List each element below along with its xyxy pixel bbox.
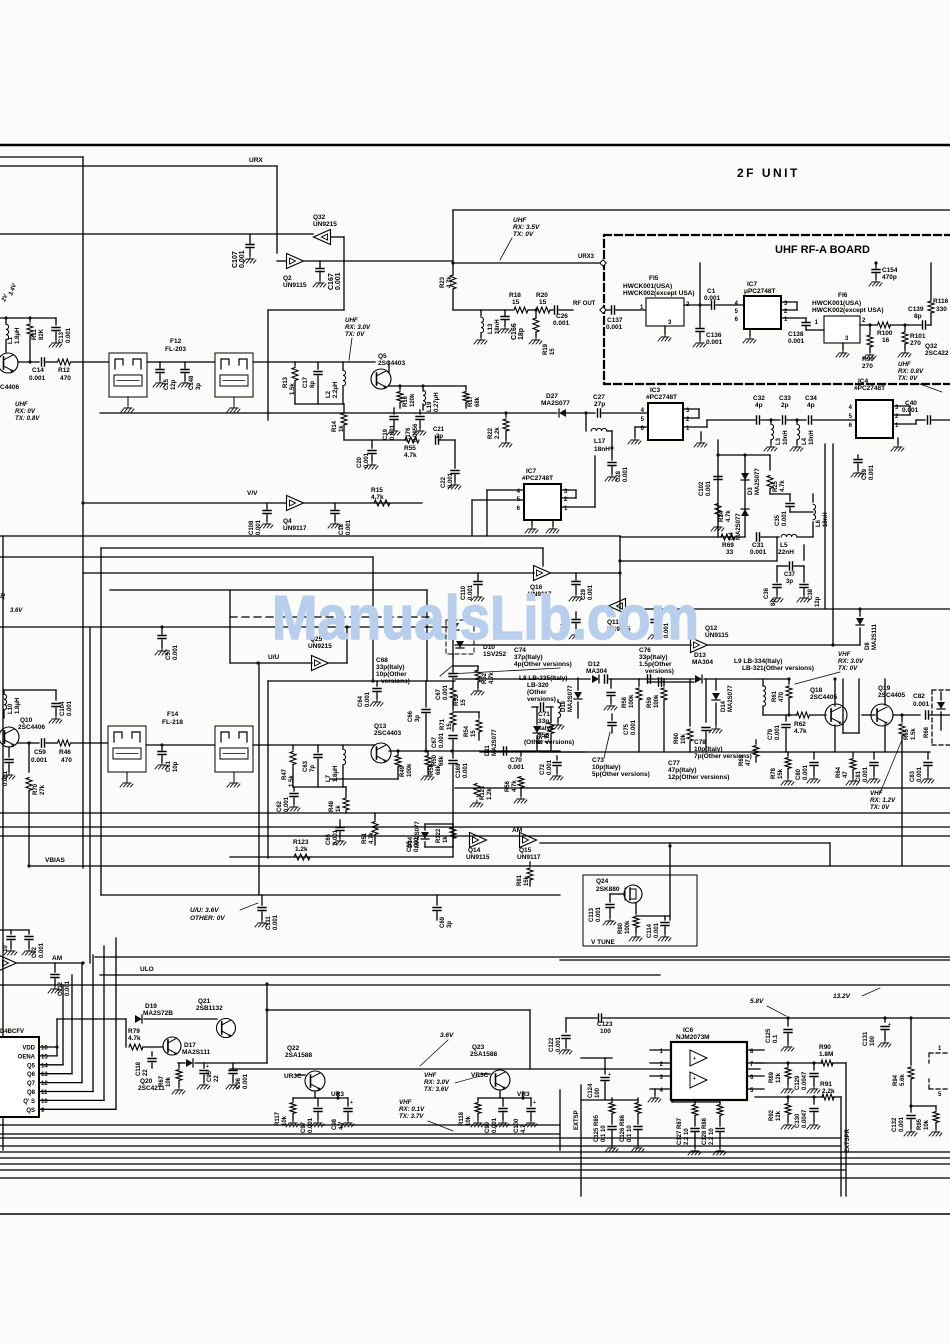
capacitor C36 bbox=[776, 566, 778, 582]
svg-text:C104: C104 bbox=[60, 701, 66, 716]
svg-text:Q22: Q22 bbox=[287, 1045, 300, 1052]
svg-text:10nH: 10nH bbox=[783, 430, 789, 445]
resistor R49 bbox=[397, 751, 399, 755]
svg-text:1.2k: 1.2k bbox=[295, 846, 308, 853]
svg-text:Q2: Q2 bbox=[283, 275, 292, 282]
svg-text:R71: R71 bbox=[440, 718, 446, 730]
svg-text:68k: 68k bbox=[439, 755, 445, 766]
svg-text:C58: C58 bbox=[0, 774, 2, 786]
svg-text:47: 47 bbox=[843, 771, 849, 778]
capacitor C58 bbox=[8, 747, 10, 757]
svg-text:L7: L7 bbox=[326, 774, 332, 782]
board outline UHF RF-A bbox=[604, 235, 950, 384]
filter F12b bbox=[215, 353, 253, 397]
svg-text:C32: C32 bbox=[753, 395, 765, 402]
svg-text:C33: C33 bbox=[779, 395, 791, 402]
svg-text:IC7: IC7 bbox=[526, 468, 537, 475]
svg-text:18nH: 18nH bbox=[594, 446, 610, 453]
svg-text:C21: C21 bbox=[433, 427, 445, 433]
svg-text:68k: 68k bbox=[475, 396, 481, 407]
svg-text:15: 15 bbox=[550, 348, 556, 355]
svg-text:+: + bbox=[693, 1076, 696, 1082]
svg-text:15: 15 bbox=[539, 299, 547, 306]
diode D17 bbox=[178, 1062, 185, 1064]
resistor R46 bbox=[58, 740, 71, 746]
diode D14 bbox=[715, 679, 717, 690]
svg-text:FI6: FI6 bbox=[838, 292, 848, 299]
capacitor C169 bbox=[452, 740, 454, 758]
connector jack bbox=[929, 1053, 950, 1089]
svg-text:+: + bbox=[608, 1072, 611, 1078]
svg-text:IC3: IC3 bbox=[650, 387, 661, 394]
svg-text:C169: C169 bbox=[456, 763, 462, 778]
svg-text:10k: 10k bbox=[924, 1119, 930, 1130]
svg-text:#PC2748T: #PC2748T bbox=[854, 385, 885, 392]
svg-text:R48: R48 bbox=[329, 800, 335, 812]
capacitor C71 bbox=[532, 706, 538, 708]
wire bbox=[0, 317, 56, 319]
wire bbox=[0, 835, 950, 837]
svg-text:OENA: OENA bbox=[18, 1054, 36, 1060]
svg-text:C65: C65 bbox=[326, 833, 332, 845]
svg-text:R70: R70 bbox=[33, 783, 39, 795]
wire bbox=[0, 556, 373, 558]
wire bbox=[0, 1124, 560, 1126]
resistor R55 bbox=[405, 437, 419, 443]
svg-text:+: + bbox=[888, 1022, 891, 1028]
svg-text:2p: 2p bbox=[781, 402, 789, 409]
capacitor C136 bbox=[696, 329, 704, 332]
inductor L2 bbox=[342, 362, 344, 370]
svg-text:C59: C59 bbox=[34, 749, 46, 756]
resistor R47 bbox=[292, 745, 294, 750]
wire bbox=[71, 361, 109, 363]
svg-text:Q32: Q32 bbox=[313, 214, 326, 221]
svg-text:0.001: 0.001 bbox=[863, 766, 869, 782]
capacitor C131 bbox=[884, 1018, 886, 1022]
wire bbox=[0, 984, 950, 986]
svg-text:C82: C82 bbox=[913, 693, 925, 700]
diode D8 bbox=[858, 607, 861, 610]
svg-text:MA2S077: MA2S077 bbox=[736, 513, 742, 540]
wire bbox=[901, 742, 903, 866]
svg-text:+: + bbox=[693, 1056, 696, 1062]
svg-text:5.6k: 5.6k bbox=[900, 1074, 906, 1086]
svg-text:C137: C137 bbox=[607, 317, 623, 324]
svg-text:C98: C98 bbox=[332, 1118, 338, 1130]
svg-text:TX: 3.7V: TX: 3.7V bbox=[399, 1113, 424, 1120]
svg-text:12p: 12p bbox=[171, 379, 177, 390]
svg-text:C18: C18 bbox=[339, 523, 345, 535]
svg-text:R46: R46 bbox=[59, 749, 71, 756]
svg-text:D11: D11 bbox=[485, 745, 491, 756]
capacitor C102 bbox=[714, 477, 722, 480]
wire bbox=[304, 260, 320, 262]
svg-text:MA2S72B: MA2S72B bbox=[143, 1010, 173, 1017]
wire bus bbox=[0, 1157, 950, 1159]
varactor D15 bbox=[932, 690, 950, 745]
svg-text:UN9215: UN9215 bbox=[313, 221, 337, 228]
svg-text:C122: C122 bbox=[549, 1037, 555, 1052]
svg-text:D13: D13 bbox=[694, 652, 706, 659]
transistor Q32 bbox=[314, 230, 331, 245]
capacitor C97 bbox=[317, 1098, 319, 1106]
svg-text:R62: R62 bbox=[794, 721, 806, 728]
capacitor C96 bbox=[232, 1063, 234, 1068]
svg-text:1.8μH: 1.8μH bbox=[15, 698, 21, 714]
svg-text:C96: C96 bbox=[236, 1077, 242, 1089]
svg-text:versions): versions) bbox=[645, 668, 674, 675]
svg-text:C127 R87: C127 R87 bbox=[677, 1117, 683, 1145]
ground bbox=[552, 520, 554, 526]
svg-text:C1: C1 bbox=[707, 288, 716, 295]
svg-text:3.6V: 3.6V bbox=[10, 608, 23, 614]
svg-text:Q8: Q8 bbox=[27, 1090, 36, 1096]
capacitor C22 bbox=[454, 440, 456, 468]
svg-text:FI5: FI5 bbox=[649, 275, 659, 282]
svg-text:V TUNE: V TUNE bbox=[591, 939, 616, 946]
svg-text:R12: R12 bbox=[58, 367, 70, 374]
svg-text:RX: 0.1V: RX: 0.1V bbox=[399, 1106, 425, 1113]
svg-text:MA2S111: MA2S111 bbox=[182, 1049, 211, 1056]
capacitor C72 bbox=[556, 756, 558, 760]
svg-text:12k: 12k bbox=[776, 1072, 782, 1083]
svg-text:18p: 18p bbox=[518, 328, 525, 340]
svg-text:0.001: 0.001 bbox=[775, 724, 781, 740]
svg-text:UN9117: UN9117 bbox=[283, 525, 307, 532]
svg-text:2.2k: 2.2k bbox=[495, 427, 501, 439]
svg-text:0.001: 0.001 bbox=[439, 732, 445, 748]
svg-text:470: 470 bbox=[779, 691, 785, 702]
svg-text:Q10: Q10 bbox=[20, 717, 33, 724]
diode D11 bbox=[536, 707, 538, 724]
svg-text:4p(Other versions): 4p(Other versions) bbox=[514, 661, 572, 668]
svg-text:0.001: 0.001 bbox=[788, 338, 805, 345]
capacitor C154 bbox=[874, 261, 877, 264]
svg-text:12p: 12p bbox=[815, 596, 821, 607]
wire bbox=[480, 751, 585, 753]
svg-text:C148: C148 bbox=[189, 375, 195, 390]
svg-text:(Other versions): (Other versions) bbox=[524, 739, 574, 746]
wire bbox=[100, 548, 102, 895]
svg-text:0.001: 0.001 bbox=[67, 700, 73, 716]
wire bbox=[499, 1090, 501, 1098]
capacitor C39 bbox=[857, 455, 859, 458]
svg-text:F14: F14 bbox=[167, 711, 179, 718]
svg-text:2SC4403: 2SC4403 bbox=[374, 730, 401, 737]
inductor L17 bbox=[585, 413, 587, 431]
wire bbox=[253, 744, 375, 746]
capacitor C69 bbox=[436, 895, 438, 905]
svg-text:0.001: 0.001 bbox=[39, 942, 45, 958]
capacitor C124 bbox=[604, 1058, 606, 1074]
transistor Q5 bbox=[371, 369, 391, 389]
svg-text:V/V: V/V bbox=[247, 490, 258, 497]
svg-text:D4BCFV: D4BCFV bbox=[0, 1029, 24, 1035]
svg-text:33p(Italy): 33p(Italy) bbox=[376, 664, 405, 671]
wire bbox=[4, 689, 56, 691]
svg-text:3p: 3p bbox=[447, 921, 453, 928]
wire bbox=[540, 842, 830, 844]
resistor R61 bbox=[788, 679, 790, 684]
wire bbox=[580, 1085, 582, 1196]
svg-text:C125: C125 bbox=[766, 1028, 772, 1043]
svg-text:3p: 3p bbox=[196, 383, 202, 390]
capacitor C74b bbox=[610, 679, 612, 688]
svg-text:Q24: Q24 bbox=[596, 878, 609, 885]
wire bbox=[267, 681, 269, 858]
svg-text:100: 100 bbox=[600, 1028, 611, 1035]
capacitor C108 bbox=[266, 503, 268, 509]
capacitor C33b bbox=[654, 612, 656, 618]
svg-text:C97: C97 bbox=[301, 1121, 307, 1133]
svg-text:C81: C81 bbox=[856, 770, 862, 782]
capacitor C64 bbox=[376, 681, 378, 686]
svg-text:0.001: 0.001 bbox=[899, 1116, 905, 1132]
svg-text:0.001: 0.001 bbox=[706, 480, 712, 496]
svg-text:L13: L13 bbox=[488, 323, 494, 334]
svg-text:1.5k: 1.5k bbox=[290, 383, 296, 395]
svg-text:RX: 3.0V: RX: 3.0V bbox=[838, 658, 864, 665]
wire bbox=[618, 559, 621, 562]
svg-text:0.001: 0.001 bbox=[390, 424, 396, 440]
capacitor C78 bbox=[705, 679, 707, 722]
resistor R64 bbox=[852, 752, 854, 757]
svg-text:R17: R17 bbox=[468, 395, 474, 407]
svg-text:4.7k: 4.7k bbox=[512, 780, 518, 792]
wire bbox=[810, 714, 826, 716]
diode D3 bbox=[744, 455, 746, 537]
svg-text:QS: QS bbox=[26, 1108, 35, 1114]
wire bbox=[39, 1099, 104, 1101]
wire bbox=[39, 1108, 116, 1110]
capacitor C148 bbox=[184, 362, 186, 368]
wire bbox=[0, 826, 950, 828]
capacitor C138 bbox=[802, 323, 810, 326]
wire bbox=[101, 547, 543, 549]
svg-text:Q18: Q18 bbox=[810, 687, 823, 694]
svg-text:0.001: 0.001 bbox=[902, 407, 919, 414]
wire bbox=[0, 1133, 560, 1135]
resistor R95 bbox=[935, 1106, 937, 1110]
svg-text:RX: 0.8V: RX: 0.8V bbox=[898, 368, 924, 375]
svg-text:RX: 3.0V: RX: 3.0V bbox=[345, 324, 371, 331]
capacitor C34 bbox=[809, 416, 812, 424]
capacitor C32 bbox=[757, 416, 760, 424]
wire bbox=[453, 309, 513, 311]
svg-text:Q5: Q5 bbox=[378, 353, 387, 360]
wire bbox=[455, 678, 590, 680]
capacitor C38 bbox=[803, 566, 805, 582]
svg-text:Q23: Q23 bbox=[472, 1044, 485, 1051]
svg-text:10k: 10k bbox=[681, 733, 687, 744]
capacitor C118 bbox=[151, 1052, 153, 1056]
wire bbox=[672, 1101, 720, 1103]
wire bus bbox=[0, 1163, 950, 1165]
svg-text:C28: C28 bbox=[616, 470, 622, 482]
svg-text:C108: C108 bbox=[249, 520, 255, 535]
resistor R58 bbox=[638, 679, 640, 686]
capacitor C59 bbox=[42, 739, 45, 747]
svg-text:R95: R95 bbox=[917, 1118, 923, 1130]
capacitor C26 bbox=[550, 309, 553, 311]
svg-text:R69: R69 bbox=[722, 542, 734, 549]
svg-text:C20: C20 bbox=[357, 456, 363, 468]
svg-text:15: 15 bbox=[512, 299, 520, 306]
svg-text:C19: C19 bbox=[383, 428, 389, 440]
ground bbox=[749, 329, 751, 336]
capacitor C67 bbox=[452, 654, 454, 672]
svg-text:0.001: 0.001 bbox=[917, 766, 923, 782]
capacitor C67b bbox=[449, 736, 457, 739]
svg-text:100: 100 bbox=[595, 1087, 601, 1098]
capacitor C30 bbox=[575, 612, 577, 618]
svg-text:0.001: 0.001 bbox=[782, 510, 788, 526]
svg-text:100: 100 bbox=[870, 1035, 876, 1046]
capacitor C20 bbox=[371, 440, 373, 448]
wire bbox=[268, 309, 344, 311]
svg-text:0.001: 0.001 bbox=[706, 339, 723, 346]
svg-text:FL-203: FL-203 bbox=[165, 346, 186, 353]
resistor R17 bbox=[465, 386, 467, 390]
svg-text:Q6: Q6 bbox=[27, 1072, 36, 1078]
svg-text:7p: 7p bbox=[310, 765, 316, 772]
svg-text:0.001: 0.001 bbox=[364, 452, 370, 468]
svg-text:Q' S: Q' S bbox=[23, 1099, 35, 1105]
wire bbox=[39, 1046, 57, 1048]
varactor D10 bbox=[446, 620, 474, 654]
svg-text:R13: R13 bbox=[283, 376, 289, 388]
svg-text:R122: R122 bbox=[436, 828, 442, 843]
transistor Q3 bbox=[0, 353, 18, 373]
resistor R51 bbox=[374, 813, 376, 820]
svg-text:C64: C64 bbox=[358, 695, 364, 707]
svg-text:0.001: 0.001 bbox=[750, 549, 767, 556]
svg-text:3p: 3p bbox=[415, 715, 421, 722]
svg-text:+: + bbox=[350, 1100, 353, 1106]
capacitor C66 bbox=[425, 681, 427, 707]
svg-text:22: 22 bbox=[214, 1075, 220, 1082]
capacitor C15 bbox=[159, 362, 161, 368]
svg-text:RX: 3.5V: RX: 3.5V bbox=[513, 224, 540, 231]
svg-text:3.6V: 3.6V bbox=[440, 1032, 454, 1039]
svg-text:R50: R50 bbox=[432, 754, 438, 766]
svg-text:R20: R20 bbox=[536, 292, 548, 299]
svg-text:D34: D34 bbox=[408, 836, 414, 848]
svg-text:+: + bbox=[206, 1064, 209, 1070]
svg-text:1k: 1k bbox=[336, 805, 342, 812]
svg-text:2SC422: 2SC422 bbox=[925, 350, 949, 357]
svg-text:0.001: 0.001 bbox=[335, 272, 342, 290]
svg-text:10: 10 bbox=[3, 945, 9, 952]
svg-text:MA2S111: MA2S111 bbox=[872, 623, 878, 650]
svg-text:FL-218: FL-218 bbox=[162, 719, 183, 726]
svg-text:0.001: 0.001 bbox=[243, 1073, 249, 1089]
svg-text:C154: C154 bbox=[882, 267, 898, 274]
svg-text:D8: D8 bbox=[865, 642, 871, 650]
wire bbox=[258, 663, 260, 895]
svg-text:C70: C70 bbox=[510, 757, 522, 764]
svg-text:Q14: Q14 bbox=[468, 847, 481, 854]
wire bbox=[763, 714, 797, 716]
svg-text:C136: C136 bbox=[706, 332, 722, 339]
wire bbox=[620, 536, 745, 538]
svg-text:0.001: 0.001 bbox=[365, 691, 371, 707]
svg-text:RX: 1.2V: RX: 1.2V bbox=[870, 797, 896, 804]
svg-text:C132: C132 bbox=[892, 1117, 898, 1132]
svg-text:100k: 100k bbox=[625, 920, 631, 934]
svg-text:D14: D14 bbox=[721, 700, 727, 712]
svg-text:R67: R67 bbox=[159, 1075, 165, 1087]
svg-text:R117: R117 bbox=[275, 1111, 281, 1126]
wire bbox=[147, 361, 160, 363]
svg-text:D3: D3 bbox=[748, 487, 754, 495]
wire bbox=[453, 209, 950, 211]
svg-text:Q13: Q13 bbox=[374, 723, 387, 730]
capacitor C83 bbox=[927, 752, 929, 759]
svg-text:TX: 0V: TX: 0V bbox=[345, 331, 365, 338]
wire bus bbox=[0, 1145, 840, 1147]
svg-text:C118: C118 bbox=[136, 1061, 142, 1076]
wire ULO bbox=[100, 974, 660, 976]
svg-text:R49: R49 bbox=[400, 765, 406, 777]
capacitor C125a bbox=[787, 1018, 789, 1026]
capacitor C57 bbox=[160, 625, 163, 628]
wire bbox=[39, 1082, 82, 1084]
svg-text:D27: D27 bbox=[546, 393, 558, 400]
svg-text:10p(Other: 10p(Other bbox=[376, 671, 407, 678]
capacitor C91 bbox=[0, 929, 29, 931]
svg-text:R24: R24 bbox=[719, 510, 725, 522]
filter F14b bbox=[215, 726, 253, 772]
resistor R121 bbox=[474, 784, 480, 797]
resistor R117 bbox=[292, 1098, 294, 1101]
svg-text:MA2S077: MA2S077 bbox=[568, 685, 574, 712]
svg-text:C66: C66 bbox=[408, 710, 414, 722]
wire bbox=[542, 548, 544, 566]
resistor R116 bbox=[930, 263, 932, 300]
capacitor C33 bbox=[783, 416, 786, 424]
svg-text:UHF: UHF bbox=[345, 317, 358, 324]
wire bbox=[0, 535, 620, 537]
inductor L5 bbox=[781, 534, 797, 537]
svg-text:0.001: 0.001 bbox=[596, 906, 602, 922]
svg-text:C139: C139 bbox=[908, 306, 924, 313]
capacitor C13 bbox=[55, 318, 57, 325]
wire bbox=[860, 324, 877, 326]
svg-text:C102: C102 bbox=[699, 481, 705, 496]
svg-text:C167: C167 bbox=[328, 273, 335, 290]
svg-text:NJM2073M: NJM2073M bbox=[676, 1034, 710, 1041]
svg-text:UHF: UHF bbox=[513, 217, 527, 224]
svg-text:C35: C35 bbox=[775, 514, 781, 526]
ground bbox=[700, 432, 702, 440]
svg-text:5p(Other versions): 5p(Other versions) bbox=[592, 771, 650, 778]
svg-text:4.7k: 4.7k bbox=[369, 832, 375, 844]
svg-text:0.001: 0.001 bbox=[256, 519, 262, 535]
svg-text:2SC4405: 2SC4405 bbox=[810, 694, 837, 701]
svg-text:C95: C95 bbox=[207, 1070, 213, 1082]
wire bus bbox=[0, 1169, 845, 1171]
wire bus bbox=[0, 1137, 840, 1139]
wire bbox=[253, 361, 375, 363]
svg-text:C99: C99 bbox=[485, 1121, 491, 1133]
capacitor C113 bbox=[610, 893, 624, 895]
capacitor C? bbox=[605, 675, 608, 683]
svg-text:0.001: 0.001 bbox=[66, 327, 72, 343]
svg-text:VHF: VHF bbox=[424, 1072, 437, 1079]
svg-text:0.001: 0.001 bbox=[448, 472, 454, 488]
